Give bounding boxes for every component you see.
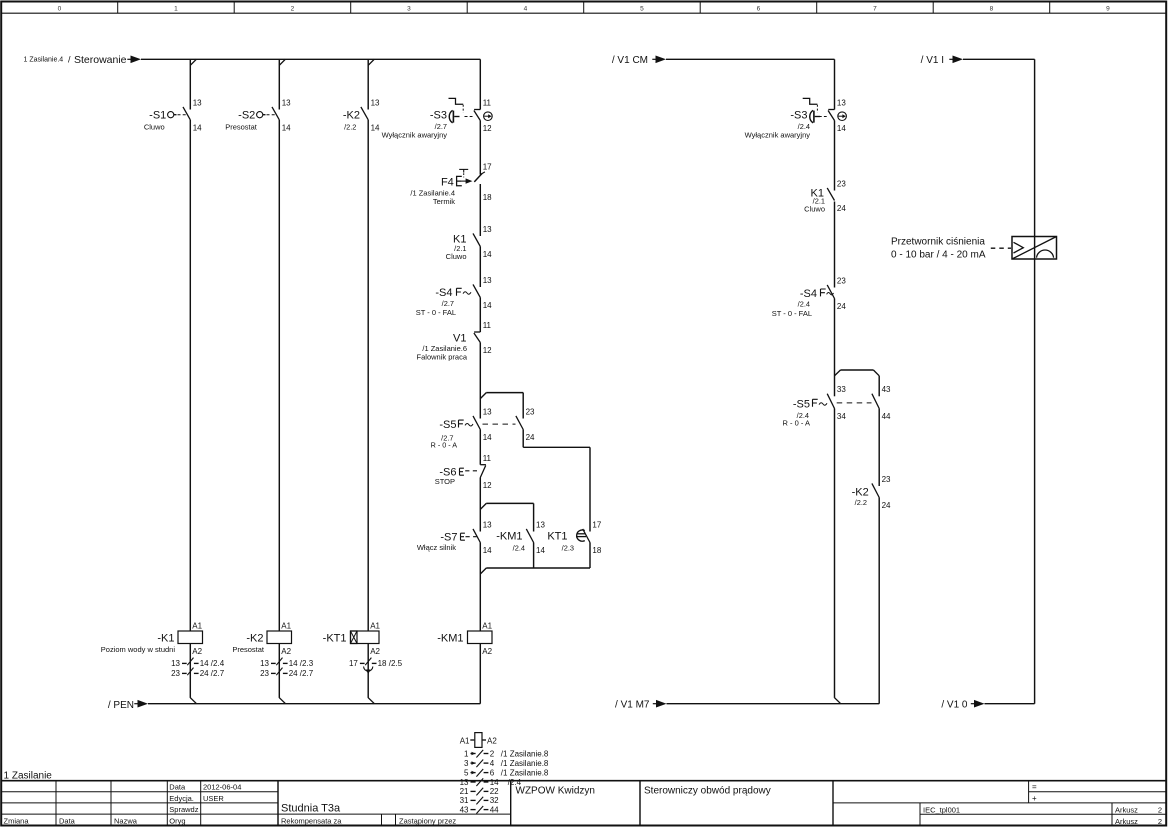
svg-text:A2: A2: [192, 647, 202, 656]
svg-text:/1 Zasilanie.8: /1 Zasilanie.8: [501, 768, 549, 777]
svg-text:ST - 0 - FAL: ST - 0 - FAL: [416, 308, 456, 317]
svg-text:Włącz silnik: Włącz silnik: [417, 543, 456, 552]
svg-text:11: 11: [483, 98, 492, 107]
svg-text:43: 43: [882, 385, 891, 394]
svg-text:-S5: -S5: [793, 398, 810, 410]
contact S4 right (NO pins 23/24, ref /2.4 ST-0-FAL): [772, 276, 847, 318]
svg-text:17: 17: [592, 520, 601, 529]
wire col4 segment S6-S7: [479, 478, 481, 532]
title block grid lines: [1, 781, 1166, 826]
contact KT1 timed (NO delayed pins 17/18, ref /2.3): [547, 520, 602, 555]
svg-text:24: 24: [837, 302, 846, 311]
KM1 xref main contact 1-2: [464, 749, 549, 758]
svg-text:-K1: -K1: [157, 632, 174, 644]
svg-text:12: 12: [483, 346, 492, 355]
svg-text:-S4: -S4: [800, 288, 817, 300]
wire V1 CM feeder: [666, 59, 835, 109]
svg-text:R - 0 - A: R - 0 - A: [782, 419, 810, 428]
svg-text:R - 0 - A: R - 0 - A: [431, 441, 458, 450]
svg-text:14: 14: [483, 301, 492, 310]
svg-text:18: 18: [483, 193, 492, 202]
svg-text:9: 9: [1106, 5, 1110, 12]
svg-text:31: 31: [460, 796, 469, 805]
svg-text:14: 14: [483, 546, 492, 555]
svg-text:2: 2: [1158, 805, 1162, 814]
svg-text:Zmiana: Zmiana: [4, 816, 30, 825]
svg-text:17: 17: [349, 659, 358, 668]
svg-text:Rekompensata za: Rekompensata za: [281, 816, 342, 825]
branch wire to KM1 holding contact: [480, 503, 533, 531]
svg-text:0: 0: [58, 5, 62, 12]
wire column1 upper: [189, 59, 191, 109]
svg-text:Przetwornik ciśnienia: Przetwornik ciśnienia: [891, 236, 985, 247]
svg-text:24: 24: [837, 204, 846, 213]
svg-text:2: 2: [291, 5, 295, 12]
svg-text:ST - 0 - FAL: ST - 0 - FAL: [772, 309, 812, 318]
svg-text:Wyłącznik awaryjny: Wyłącznik awaryjny: [745, 130, 811, 139]
branch wire to S5 second pole: [480, 393, 523, 419]
svg-text:Nazwa: Nazwa: [114, 816, 138, 825]
svg-text:-S5: -S5: [439, 419, 456, 431]
svg-text:5: 5: [640, 5, 644, 12]
svg-text:14: 14: [193, 123, 202, 132]
title block texts left: [4, 783, 242, 826]
svg-text:22: 22: [490, 787, 499, 796]
svg-text:18 /2.5: 18 /2.5: [378, 659, 403, 668]
KM1 xref main contact 5-6: [464, 768, 549, 777]
svg-text:STOP: STOP: [435, 477, 455, 486]
svg-text:Sterowanie: Sterowanie: [74, 54, 127, 66]
wire col4 segment V1-S5: [479, 343, 481, 419]
svg-text:/2.3: /2.3: [562, 543, 574, 552]
svg-text:43: 43: [460, 805, 469, 814]
collector wire below S7/KM1/KT1: [480, 543, 590, 575]
dashed mechanical link right S5: [837, 402, 872, 404]
svg-text:1: 1: [464, 749, 469, 758]
svg-text:17: 17: [483, 163, 492, 172]
title block = and + cells: [1032, 783, 1037, 803]
svg-text:3: 3: [464, 759, 469, 768]
svg-text:2: 2: [490, 749, 495, 758]
svg-text:-KT1: -KT1: [323, 632, 347, 644]
svg-text:/2.4: /2.4: [513, 543, 525, 552]
wire column2 to PEN: [278, 644, 280, 698]
wire V1 I feeder: [963, 59, 1035, 703]
wire column3 upper: [367, 59, 369, 109]
contact S5 pole1 (NO pins 13/14, ref /2.7 R-0-A): [431, 407, 493, 449]
svg-text:A2: A2: [281, 647, 291, 656]
junction chamfer right main at M7: [835, 698, 841, 704]
svg-text:13: 13: [837, 98, 846, 107]
KM1 xref aux 43-44: [460, 805, 500, 814]
svg-text:2012-06-04: 2012-06-04: [203, 783, 241, 792]
svg-text:32: 32: [490, 796, 499, 805]
svg-text:14: 14: [282, 123, 291, 132]
svg-text:23: 23: [260, 669, 269, 678]
svg-text:5: 5: [464, 768, 469, 777]
svg-text:11: 11: [483, 321, 492, 330]
junction chamfer col3 bottom: [368, 698, 374, 704]
svg-text:Edycja.: Edycja.: [169, 794, 194, 803]
KM1 xref aux 21-22: [460, 787, 500, 796]
svg-text:-S2: -S2: [238, 110, 255, 122]
svg-text:-K2: -K2: [343, 110, 360, 122]
svg-text:IEC_tpl001: IEC_tpl001: [923, 805, 960, 814]
svg-text:-S3: -S3: [790, 110, 807, 122]
wire col4 segment S4-V1: [479, 298, 481, 333]
svg-text:0 - 10 bar / 4 - 20 mA: 0 - 10 bar / 4 - 20 mA: [891, 250, 986, 261]
net label / V1 I: [921, 55, 963, 66]
wire col4 segment F4-K1: [479, 184, 481, 236]
svg-text:Wyłącznik awaryjny: Wyłącznik awaryjny: [382, 130, 448, 139]
svg-text:-S4: -S4: [435, 287, 452, 299]
svg-text:Arkusz: Arkusz: [1115, 817, 1138, 826]
svg-text:1 Zasilanie.4: 1 Zasilanie.4: [24, 57, 64, 64]
wire right S5 pole2 down to K2: [878, 409, 880, 487]
svg-text:Cluwo: Cluwo: [144, 123, 165, 132]
dashed mechanical link S5: [483, 423, 516, 425]
wire column2 lower: [278, 120, 280, 631]
svg-text:Cluwo: Cluwo: [804, 204, 825, 213]
contact K2 right (NO pins 23/24, ref /2.2): [852, 475, 891, 510]
svg-text:/2.7: /2.7: [442, 299, 454, 308]
wire V1 0 rail: [985, 703, 1035, 705]
wire column1 to PEN: [189, 644, 191, 698]
svg-text:4: 4: [490, 759, 495, 768]
wire col4 segment S5-S6: [479, 430, 481, 465]
pressure transducer 0-10 bar / 4-20 mA: [891, 236, 1057, 260]
svg-text:A2: A2: [487, 736, 497, 745]
svg-text:Oryg: Oryg: [169, 816, 185, 825]
svg-text:Arkusz: Arkusz: [1115, 805, 1138, 814]
svg-text:13: 13: [371, 98, 380, 107]
svg-text:13: 13: [282, 98, 291, 107]
svg-text:14 /2.4: 14 /2.4: [200, 659, 225, 668]
junction chamfer col1 top: [190, 59, 196, 65]
svg-text:-S3: -S3: [430, 110, 447, 122]
svg-text:V1: V1: [453, 333, 466, 345]
junction chamfer col1 bottom: [190, 698, 196, 704]
KT1 cross-reference delayed contact 17-18 /2.5: [349, 658, 403, 675]
K1 cross-reference contacts 23-24 /2.7: [171, 668, 225, 678]
contact K1 right (NO pins 23/24, ref /2.1 Cluwo): [804, 179, 846, 213]
svg-text:/ V1 I: / V1 I: [921, 55, 944, 66]
contact S5 right pole2 (NO pins 43/44): [872, 385, 891, 421]
svg-text:/1 Zasilanie.8: /1 Zasilanie.8: [501, 759, 549, 768]
svg-text:-S7: -S7: [440, 531, 457, 543]
svg-text:13: 13: [460, 778, 469, 787]
svg-text:A1: A1: [460, 736, 470, 745]
net label / V1 M7: [615, 699, 666, 710]
svg-text:13: 13: [260, 659, 269, 668]
wire col4 segment to KM1 coil: [479, 543, 481, 632]
svg-text:3: 3: [407, 5, 411, 12]
KM1 xref aux 13-14 /2.4: [460, 778, 500, 787]
contact S3 emergency stop right (pins 13/14, ref /2.4): [745, 98, 847, 139]
wire right K1-S4: [834, 202, 836, 288]
svg-text:11: 11: [483, 454, 492, 463]
svg-text:-K2: -K2: [246, 632, 263, 644]
svg-text:/ V1 M7: / V1 M7: [615, 699, 650, 710]
svg-text:44: 44: [490, 805, 499, 814]
wire column3 to PEN: [367, 644, 369, 698]
svg-text:2: 2: [1158, 817, 1162, 826]
svg-text:Falownik praca: Falownik praca: [417, 353, 468, 362]
wire col4 to PEN: [479, 644, 481, 704]
svg-text:=: =: [1032, 783, 1037, 792]
svg-text:/ V1 CM: / V1 CM: [612, 55, 648, 66]
net label / V1 CM: [612, 55, 666, 66]
svg-text:USER: USER: [203, 794, 224, 803]
svg-text:A1: A1: [281, 621, 291, 630]
svg-text:24: 24: [526, 433, 535, 442]
wire column4 upper: [479, 59, 481, 109]
svg-text:13: 13: [483, 520, 492, 529]
title block Arkusz cells: [1115, 805, 1162, 826]
svg-text:6: 6: [490, 768, 495, 777]
svg-text:WZPOW Kwidzyn: WZPOW Kwidzyn: [516, 785, 595, 796]
contact S3 emergency stop (NC pins 11/12, ref /2.7): [382, 98, 493, 139]
svg-text:/1 Zasilanie.8: /1 Zasilanie.8: [501, 749, 549, 758]
K2 cross-reference contacts 13-14 /2.3: [260, 658, 314, 668]
K1 cross-reference contacts 13-14 /2.4: [171, 658, 225, 668]
svg-text:/2.4: /2.4: [798, 299, 810, 308]
svg-text:F4: F4: [441, 176, 454, 188]
svg-text:13: 13: [483, 225, 492, 234]
wire from S5 pole2 down and right to KT1 branch: [523, 430, 590, 532]
svg-text:Poziom wody w studni: Poziom wody w studni: [101, 645, 176, 654]
svg-text:44: 44: [882, 412, 891, 421]
svg-text:/2.2: /2.2: [344, 123, 356, 132]
svg-text:33: 33: [837, 385, 846, 394]
contact V1 inverter-running (NC pins 11/12, /1 Zasilanie.6 Falownik praca): [417, 321, 493, 362]
coil KT1 timer (pins A1/A2): [323, 621, 381, 656]
wire column2 upper: [278, 59, 280, 109]
svg-text:/ V1 0: / V1 0: [941, 699, 968, 710]
contact S6 STOP (NC push-button pins 11/12): [435, 454, 492, 490]
wire PEN rail: [148, 703, 480, 705]
svg-text:-S1: -S1: [149, 110, 166, 122]
wire right S3-K1: [834, 121, 836, 191]
net label / V1 0: [941, 699, 984, 710]
svg-text:A1: A1: [482, 621, 492, 630]
svg-text:23: 23: [837, 276, 846, 285]
svg-text:13: 13: [483, 276, 492, 285]
svg-text:12: 12: [483, 124, 492, 133]
svg-text:Presostat: Presostat: [232, 645, 265, 654]
top ruler band: [1, 12, 1166, 14]
contact K1 auxiliary (NO pins 13/14, ref /2.1 Cluwo): [446, 225, 492, 261]
contact KM1 holding (NO pins 13/14, ref /2.4): [496, 520, 545, 555]
svg-text:Presostat: Presostat: [225, 123, 258, 132]
wire right S5 pole1 down to M7: [834, 409, 836, 698]
contact K2 auxiliary (NO, pins 13/14, ref /2.2): [343, 98, 380, 132]
coil KM1 (pins A1/A2): [437, 621, 492, 656]
wire col4 segment K1-S4: [479, 247, 481, 288]
svg-text:24 /2.7: 24 /2.7: [200, 669, 225, 678]
svg-text:21: 21: [460, 787, 469, 796]
svg-text:Cluwo: Cluwo: [446, 252, 467, 261]
contact S4 selector (NO pins 13/14, ref /2.7 ST-0-FAL): [416, 276, 492, 317]
svg-text:7: 7: [873, 5, 877, 12]
svg-text:/2.2: /2.2: [855, 498, 867, 507]
svg-text:Sterowniczy obwód prądowy: Sterowniczy obwód prądowy: [644, 785, 771, 796]
svg-text:13: 13: [193, 98, 202, 107]
contact S5 right pole1 (NO pins 33/34, ref /2.4 R-0-A): [782, 385, 846, 428]
svg-text:A1: A1: [192, 621, 202, 630]
K2 cross-reference contacts 23-24 /2.7: [260, 668, 314, 678]
svg-text:-K2: -K2: [852, 486, 869, 498]
svg-text:A2: A2: [370, 647, 380, 656]
wire: top feeder rail y=59: [141, 58, 480, 60]
svg-text:14: 14: [536, 546, 545, 555]
contact F4 thermal overload (pins 17/18, /1 Zasilanie.4 Termik): [410, 163, 492, 207]
svg-text:A1: A1: [370, 621, 380, 630]
branch wire to right S5 second pole: [835, 370, 880, 396]
svg-text:6: 6: [757, 5, 761, 12]
svg-text:Data: Data: [59, 816, 76, 825]
svg-text:-KM1: -KM1: [496, 530, 522, 542]
wire right K2 down to M7: [878, 498, 880, 704]
contact S2 (NO push-button, pins 13/14): [225, 98, 291, 132]
junction chamfer col2 bottom: [279, 698, 285, 704]
coil K2 (pins A1/A2): [232, 621, 291, 656]
svg-text:13: 13: [483, 407, 492, 416]
svg-text:23: 23: [526, 407, 535, 416]
net label 1 Zasilanie.4 / Sterowanie: [24, 54, 142, 66]
svg-text:1 Zasilanie: 1 Zasilanie: [4, 770, 53, 781]
svg-text:KT1: KT1: [547, 530, 567, 542]
svg-text:Data: Data: [169, 783, 186, 792]
svg-text:4: 4: [524, 5, 528, 12]
wire right S4-S5: [834, 299, 836, 397]
svg-text:23: 23: [171, 669, 180, 678]
svg-text:13: 13: [536, 520, 545, 529]
svg-text:14: 14: [837, 124, 846, 133]
contact S5 pole2 (NO pins 23/24): [516, 407, 535, 442]
junction chamfer col2 top: [279, 59, 285, 65]
net label / PEN: [108, 700, 148, 711]
wire col4 segment S3-F4: [479, 121, 481, 175]
svg-text:23: 23: [837, 179, 846, 188]
svg-text:/ PEN: / PEN: [108, 700, 134, 711]
svg-text:A2: A2: [482, 647, 492, 656]
svg-text:12: 12: [483, 481, 492, 490]
svg-text:24: 24: [882, 501, 891, 510]
KM1 xref main contact 3-4: [464, 759, 549, 768]
svg-text:+: +: [1032, 794, 1037, 803]
svg-text:14 /2.3: 14 /2.3: [289, 659, 314, 668]
svg-text:14: 14: [483, 433, 492, 442]
svg-text:13: 13: [171, 659, 180, 668]
KM1 contactor cross-reference coil A1-A2: [460, 733, 498, 748]
svg-text:14: 14: [371, 123, 380, 132]
wire column1 lower: [189, 120, 191, 631]
coil K1 (pins A1/A2): [101, 621, 203, 656]
svg-text:Sprawdz: Sprawdz: [169, 805, 198, 814]
svg-text:1: 1: [174, 5, 178, 12]
svg-text:8: 8: [990, 5, 994, 12]
svg-text:18: 18: [592, 546, 601, 555]
svg-text:34: 34: [837, 412, 846, 421]
svg-text:Termik: Termik: [433, 197, 455, 206]
wire column3 lower: [367, 120, 369, 631]
junction chamfer col3 top: [368, 59, 374, 65]
contact S1 (NO push-button, pins 13/14): [144, 98, 202, 132]
svg-text:24 /2.7: 24 /2.7: [289, 669, 314, 678]
svg-text:-KM1: -KM1: [437, 632, 463, 644]
svg-text:14: 14: [483, 250, 492, 259]
svg-text:Studnia T3a: Studnia T3a: [281, 803, 341, 815]
svg-text:23: 23: [882, 475, 891, 484]
KM1 xref aux 31-32: [460, 796, 500, 805]
svg-text:Zastąpiony przez: Zastąpiony przez: [399, 816, 456, 825]
wire V1 M7 rail: [667, 703, 880, 705]
svg-text:14: 14: [490, 778, 499, 787]
contact S7 start button (NO pins 13/14, Wlacz silnik): [417, 520, 492, 555]
